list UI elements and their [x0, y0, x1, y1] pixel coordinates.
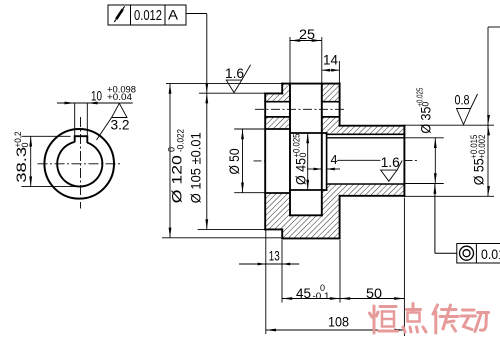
arrow 38.3 down — [29, 176, 32, 186]
bolt hole axis — [255, 108, 344, 110]
hatch hub lower wall — [340, 184, 405, 196]
bore45 top / keyway line across slot — [290, 132, 327, 134]
dim line 38.3 — [30, 136, 32, 186]
svg-text:108: 108 — [328, 314, 349, 330]
disc left face upper segment — [281, 84, 283, 94]
bore50 bottom edge — [265, 192, 290, 194]
hatch hub upper wall — [340, 126, 405, 135]
hatch boss lower — [265, 193, 282, 229]
main axis left stub — [254, 160, 266, 162]
bore50 top edge — [265, 128, 290, 130]
svg-text:A: A — [168, 7, 179, 23]
svg-text:Ø 50: Ø 50 — [226, 148, 242, 174]
roughness 1.6 on D105 — [226, 65, 250, 93]
leader to off-image frame top-right — [487, 27, 489, 125]
svg-text:Ø 45: Ø 45 — [293, 158, 309, 185]
concentricity frame bottom-right — [435, 184, 500, 264]
hatch boss upper (left of disc, above bolt hole) — [265, 93, 282, 101]
svg-text:45: 45 — [296, 285, 311, 301]
bottom dims ext lines — [266, 198, 405, 337]
dim D55 — [404, 27, 500, 196]
bolt hole bottom edge right part — [322, 116, 340, 118]
hatch disc sliver upper-left above bolt hole — [282, 84, 290, 102]
bolt hole top edge left part — [265, 101, 290, 103]
svg-text:1.6: 1.6 — [225, 65, 244, 81]
dim line 10 — [57, 102, 133, 104]
keyway width ext line left — [74, 103, 76, 135]
dim 25 — [290, 37, 322, 84]
char heng — [370, 306, 398, 333]
svg-text:0: 0 — [20, 142, 30, 147]
svg-text:Ø 105 ±0.01: Ø 105 ±0.01 — [188, 132, 204, 203]
slot bottom — [290, 214, 322, 216]
bore35 top edge — [327, 137, 405, 139]
horizontal centerline — [38, 163, 123, 165]
roughness 0.8 on D55 — [457, 94, 478, 125]
disc bottom edge — [282, 237, 339, 239]
arrow 38.3 up — [29, 136, 32, 146]
hub outer circle — [44, 129, 114, 199]
boss left face — [264, 93, 266, 229]
svg-text:+0.002: +0.002 — [477, 135, 487, 159]
hatch left region below bolt hole to bore50 — [265, 117, 290, 129]
hatch right sliver below bolt hole to keyway line — [322, 117, 340, 133]
slot left wall — [289, 84, 291, 216]
roughness 1.6 in bore — [381, 161, 403, 182]
bolt hole bottom edge left part — [265, 116, 290, 118]
svg-text:Ø 55: Ø 55 — [470, 158, 486, 185]
svg-text:Ø 120: Ø 120 — [169, 155, 185, 203]
dim 45 — [282, 298, 340, 300]
slot right wall — [321, 84, 323, 216]
boss top edge — [265, 92, 282, 94]
runout frame top-left — [108, 5, 207, 25]
bore step face 45-35 — [326, 133, 328, 190]
svg-text:0: 0 — [298, 152, 308, 157]
svg-text:1.6: 1.6 — [381, 154, 400, 170]
vertical centerline — [80, 117, 82, 209]
disc right face upper segment — [339, 84, 341, 126]
roughness symbol 3.2 triangle — [97, 103, 128, 140]
svg-text:Ø 35: Ø 35 — [417, 106, 433, 133]
svg-text:10: 10 — [91, 88, 102, 104]
boss bottom edge — [265, 228, 282, 230]
keyway left side — [74, 135, 76, 142]
main axis right stub — [404, 159, 419, 161]
hub right face — [403, 126, 405, 196]
dim D45 — [307, 133, 309, 190]
svg-text:3.2: 3.2 — [111, 117, 130, 133]
disc right face lower segment — [339, 196, 341, 239]
hatch below slot — [290, 215, 322, 238]
dim 13 — [239, 263, 299, 265]
keyway width ext line right — [86, 103, 88, 135]
disc top edge — [282, 83, 339, 85]
svg-text:0.01: 0.01 — [481, 246, 500, 262]
arrow 10 left — [65, 102, 75, 105]
char dong — [461, 310, 489, 332]
dim 108 — [266, 329, 405, 331]
bore45 bottom edge — [290, 189, 327, 191]
dim D105 — [198, 14, 266, 230]
keyway bottom line hub — [327, 133, 405, 135]
keyway right side — [86, 135, 88, 143]
svg-text:38.3: 38.3 — [13, 147, 29, 183]
dim 50 — [340, 298, 404, 300]
hatch disc sliver lower-left — [282, 193, 290, 238]
dim 4 with 1.6 — [307, 160, 381, 169]
svg-text:-0.1: -0.1 — [313, 291, 330, 301]
dim D120 — [162, 84, 282, 238]
svg-text:0: 0 — [421, 102, 431, 107]
char dian — [403, 304, 426, 333]
hub top edge — [340, 125, 405, 127]
char chuan — [433, 305, 458, 333]
dim D35 — [404, 138, 443, 184]
keyway top edge — [75, 135, 88, 137]
hatch lower disc right of step — [327, 184, 340, 238]
svg-text:0.8: 0.8 — [455, 92, 470, 108]
svg-text:13: 13 — [269, 248, 280, 264]
dim 38.3 ext bottom — [21, 186, 80, 188]
dim D50 — [234, 129, 265, 193]
bore35 bottom edge — [327, 183, 405, 185]
disc left face lower segment — [281, 229, 283, 238]
svg-text:+0.04: +0.04 — [107, 92, 132, 102]
hub bottom edge — [340, 195, 405, 197]
svg-text:14: 14 — [323, 52, 338, 68]
bolt hole top edge right part — [322, 101, 340, 103]
svg-text:50: 50 — [366, 285, 382, 301]
bore circle with keyway gap — [57, 142, 102, 187]
svg-text:0.012: 0.012 — [134, 8, 162, 24]
dim 38.3 ext top — [21, 135, 70, 137]
hatch disc sliver upper-right above bolt hole — [322, 84, 340, 102]
arrow 10 right — [87, 102, 97, 105]
svg-text:25: 25 — [299, 26, 315, 42]
dim 14 — [322, 61, 340, 84]
hatch lower sliver between slot and step — [322, 190, 327, 238]
svg-text:-0.022: -0.022 — [176, 129, 186, 152]
svg-text:4: 4 — [331, 152, 338, 167]
